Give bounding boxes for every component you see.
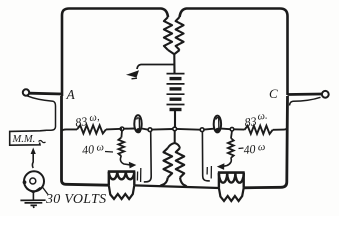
label 40-ohm right bbox=[239, 147, 244, 150]
svg-text:40: 40 bbox=[81, 142, 94, 157]
wire bus bbox=[221, 128, 230, 131]
resistor R 40-ohm left bbox=[118, 138, 124, 157]
wire left-40 to coil + arrow bbox=[120, 156, 129, 165]
wire right loop top bbox=[180, 9, 288, 96]
arrow up to box bbox=[31, 153, 34, 169]
wire bus bbox=[152, 128, 173, 131]
node junction left-tap bbox=[148, 128, 152, 132]
node junction left-40 bbox=[120, 127, 124, 131]
svg-text:ω.: ω. bbox=[257, 110, 268, 122]
resistor top-left zigzag bbox=[164, 17, 172, 50]
terminal A circle bbox=[23, 89, 29, 95]
svg-text:83: 83 bbox=[74, 114, 88, 130]
wire battery to bus bbox=[174, 111, 176, 128]
battery B (4 cells) bbox=[167, 73, 185, 75]
label 83-ohm right bbox=[243, 110, 269, 129]
wire terminal A to leg bbox=[29, 92, 62, 96]
svg-text:M.M.: M.M. bbox=[12, 134, 36, 145]
wire bus bbox=[204, 128, 214, 131]
wire terminal C to leg bbox=[288, 93, 322, 96]
svg-text:A: A bbox=[66, 87, 76, 102]
svg-text:83: 83 bbox=[244, 114, 258, 130]
resistor top-right zigzag bbox=[176, 17, 184, 50]
motor mount + lead bbox=[27, 188, 41, 200]
wire tap-to-left-coil bbox=[144, 132, 151, 182]
label 83-ohm left bbox=[74, 112, 100, 130]
svg-text:ω,: ω, bbox=[89, 112, 100, 124]
wire left-40 drop bbox=[120, 131, 123, 138]
wire terminal C lower lead bbox=[290, 97, 321, 105]
wire center fork bbox=[168, 131, 180, 148]
M.M. box bbox=[10, 130, 46, 145]
wire bus right stub bbox=[273, 126, 288, 130]
wire right leg lower bbox=[244, 96, 288, 188]
resistor R 83-ohm right bbox=[245, 126, 273, 134]
wire bottom bus center bbox=[134, 185, 219, 188]
resistor center coil left bbox=[164, 148, 173, 178]
wire right-40 to coil + arrow bbox=[224, 158, 231, 166]
wire left leg lower bbox=[62, 96, 109, 185]
svg-text:40: 40 bbox=[243, 142, 256, 157]
wire bus bbox=[124, 128, 135, 130]
node junction right-40 bbox=[230, 127, 234, 131]
plug/fuse oval left bbox=[134, 115, 141, 132]
ground symbol bbox=[20, 200, 45, 208]
wire bus bbox=[177, 128, 201, 131]
wire center coil right foot bbox=[180, 178, 187, 188]
heater coil left (pictorial) bbox=[108, 170, 136, 173]
wire left loop top bbox=[62, 9, 168, 97]
terminal C circle bbox=[322, 91, 329, 98]
resistor center coil right bbox=[176, 148, 184, 178]
wire center coil left foot bbox=[160, 178, 168, 188]
wire battery tap bbox=[137, 65, 174, 70]
svg-text:30 VOLTS: 30 VOLTS bbox=[45, 192, 106, 207]
resistor R 40-ohm right bbox=[228, 138, 234, 158]
wire bus bbox=[234, 128, 245, 130]
galvanometer/motor circle bbox=[24, 171, 44, 191]
wire tap-to-right-coil bbox=[202, 132, 209, 181]
svg-text:C: C bbox=[269, 86, 278, 101]
right coil lead marks bbox=[207, 166, 211, 179]
sliding-tap arrow bbox=[126, 70, 139, 77]
wire bus left stub bbox=[62, 129, 77, 131]
label 40-ohm left bbox=[81, 141, 104, 157]
wire bus bbox=[142, 129, 149, 130]
left coil lead marks bbox=[137, 168, 140, 182]
wire bus bbox=[106, 128, 122, 131]
wire zigzag merge to battery bbox=[168, 50, 180, 73]
svg-text:ω: ω bbox=[257, 142, 266, 154]
node junction right-tap bbox=[200, 128, 204, 132]
resistor R 83-ohm left bbox=[77, 125, 106, 133]
node junction battery/center bbox=[173, 127, 177, 131]
heater coil right (pictorial) bbox=[218, 171, 245, 174]
wire terminal A lower lead bbox=[27, 96, 56, 131]
svg-text:ω: ω bbox=[96, 142, 105, 154]
plug/fuse oval right bbox=[214, 116, 221, 133]
wire right-40 drop bbox=[231, 131, 232, 138]
